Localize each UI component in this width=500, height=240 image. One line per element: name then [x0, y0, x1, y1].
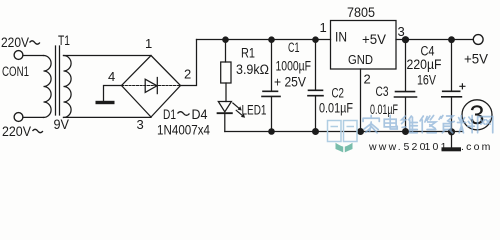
LED1 emission arrow 2	[236, 110, 243, 116]
junction dot rail R1	[222, 36, 229, 43]
capacitor C2 bottom lead	[315, 96, 317, 131]
wire bridge node 2 up to DC rail	[181, 40, 197, 86]
svg-text:IN: IN	[335, 30, 347, 45]
svg-text:2: 2	[364, 72, 371, 87]
svg-text:+ 25V: + 25V	[274, 75, 306, 90]
svg-text:3.9kΩ: 3.9kΩ	[236, 62, 269, 77]
LED1 diode triangle	[218, 102, 231, 112]
LED1 cathode bar	[218, 112, 232, 114]
junction dot bottom C3	[402, 128, 409, 135]
capacitor C1 top lead	[271, 40, 273, 91]
junction dot rail C1	[268, 36, 275, 43]
svg-text:T1: T1	[58, 33, 70, 48]
capacitor C2 plates	[308, 90, 323, 95]
terminal top 220V input	[14, 51, 23, 60]
char dian	[384, 116, 397, 130]
svg-text:.com: .com	[461, 141, 493, 153]
svg-text:101: 101	[425, 141, 449, 153]
svg-text:+5V: +5V	[362, 32, 386, 47]
circled terminal 3	[462, 100, 492, 130]
watermark chinese characters	[363, 116, 493, 133]
watermark logo squares	[328, 121, 358, 142]
tilde of 220V bottom	[33, 129, 43, 132]
capacitor C1 bottom lead	[271, 97, 273, 132]
LED1 emission arrow 1	[233, 103, 240, 109]
svg-text:16V: 16V	[417, 73, 436, 88]
svg-text:2: 2	[184, 67, 191, 82]
junction dot rail C4	[448, 36, 455, 43]
capacitor C4 plates	[442, 91, 462, 97]
svg-text:3: 3	[398, 24, 405, 39]
char zi	[439, 116, 454, 133]
ground symbol at output	[442, 147, 462, 151]
bottom DC rail	[225, 131, 462, 133]
capacitor C2 top lead	[315, 40, 317, 90]
svg-text:9V: 9V	[54, 117, 70, 132]
bridge rectifier D1-D4 diamond	[122, 56, 181, 118]
svg-text:C2: C2	[332, 86, 345, 101]
regulator GND pin wire	[360, 69, 362, 132]
svg-text:+5V: +5V	[464, 52, 488, 67]
char jia	[363, 116, 379, 133]
junction dot bottom C2	[312, 128, 319, 135]
terminal +5V output	[473, 35, 483, 45]
wire bottom rail to output ground	[451, 132, 453, 148]
bridge internal diode triangle	[145, 79, 157, 92]
junction dot bottom GND pin	[357, 128, 364, 135]
wire bridge node 4 to ground	[104, 86, 122, 101]
wire terminal to T1 primary top	[23, 55, 44, 57]
capacitor C1 plates	[262, 91, 280, 96]
svg-text:1: 1	[145, 36, 152, 51]
wire T1 secondary top to bridge node 1	[64, 55, 152, 57]
capacitor C3 bottom lead	[405, 98, 407, 132]
ground symbol at bridge	[96, 101, 115, 104]
capacitor C4 bottom lead	[451, 97, 453, 131]
wire T1 secondary bottom to bridge node 3	[64, 116, 152, 118]
char xiu	[420, 116, 436, 133]
svg-text:D4: D4	[192, 107, 208, 122]
transformer T1 core	[56, 46, 60, 115]
svg-text:0.01µF: 0.01µF	[319, 101, 353, 116]
regulator U1 7805 box	[331, 21, 397, 70]
output rail 7805 to +5V terminal	[396, 39, 473, 41]
resistor R1 body	[221, 62, 231, 83]
svg-text:0.01µF: 0.01µF	[370, 102, 398, 117]
capacitor C3 top lead	[405, 40, 407, 92]
wire LED1 to bottom rail	[224, 113, 226, 131]
svg-text:1000µF: 1000µF	[276, 59, 312, 74]
svg-text:CON1: CON1	[2, 64, 29, 79]
svg-text:GND: GND	[348, 52, 373, 67]
junction dot bottom C4	[448, 128, 455, 135]
svg-text:3: 3	[137, 117, 144, 132]
svg-text:www.: www.	[368, 141, 403, 153]
label C4 plus	[459, 83, 465, 89]
transformer T1 secondary winding	[64, 56, 72, 118]
junction dot bottom C1	[268, 128, 275, 135]
svg-text:C3: C3	[376, 84, 389, 99]
resistor R1 lead	[225, 40, 227, 63]
capacitor C3 plates	[395, 92, 417, 97]
top DC rail to 7805 IN	[197, 39, 331, 41]
char liao	[458, 116, 475, 133]
svg-text:220V: 220V	[2, 124, 31, 139]
tilde of D1-D4	[178, 112, 190, 116]
wire R1 to LED1	[225, 83, 227, 102]
bridge internal diode link	[122, 85, 181, 87]
svg-text:C1: C1	[288, 40, 300, 55]
svg-text:1: 1	[320, 20, 327, 35]
svg-text:220µF: 220µF	[407, 57, 442, 72]
svg-text:D1: D1	[163, 107, 176, 122]
svg-text:LED1: LED1	[242, 103, 267, 118]
svg-text:4: 4	[108, 69, 115, 84]
capacitor C4 top lead	[451, 40, 453, 91]
char wang	[478, 117, 493, 133]
svg-text:R1: R1	[241, 46, 255, 61]
junction dot rail C2	[312, 36, 319, 43]
transformer T1 primary winding	[44, 56, 52, 118]
tilde of 220V top	[30, 41, 40, 44]
bridge internal diode cathode bar	[156, 78, 158, 94]
terminal bottom 220V input	[14, 113, 23, 122]
svg-text:1N4007x4: 1N4007x4	[157, 123, 210, 138]
wire terminal to T1 primary bottom	[23, 116, 44, 118]
svg-text:7805: 7805	[347, 5, 375, 20]
watermark logo book	[336, 143, 344, 153]
char wei	[402, 116, 418, 133]
svg-text:220V: 220V	[1, 35, 29, 50]
junction dot rail C3	[402, 36, 409, 43]
